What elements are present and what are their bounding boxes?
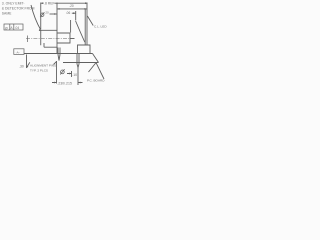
svg-text:.04: .04 — [15, 26, 20, 30]
svg-text:.30: .30 — [19, 64, 24, 68]
svg-text:Ø: Ø — [5, 26, 8, 30]
svg-text:.8 REF: .8 REF — [44, 2, 55, 6]
svg-text:P.C. BOARD: P.C. BOARD — [87, 79, 105, 83]
svg-text:.20: .20 — [45, 11, 50, 15]
svg-text:TYP. 2 PLCS: TYP. 2 PLCS — [30, 68, 48, 72]
svg-text:.10: .10 — [72, 73, 77, 77]
svg-text:.06: .06 — [66, 11, 71, 15]
svg-text:C.L. LED: C.L. LED — [94, 25, 107, 29]
svg-text:.20: .20 — [69, 4, 74, 8]
svg-text:ALIGNMENT PINS: ALIGNMENT PINS — [30, 64, 56, 68]
svg-text:SAME: SAME — [2, 12, 12, 16]
svg-text:.230/.215: .230/.215 — [57, 81, 72, 85]
svg-text:& DETECTOR FROM: & DETECTOR FROM — [2, 7, 35, 11]
svg-text:3. ONLY EMIT-: 3. ONLY EMIT- — [2, 2, 25, 6]
svg-text:-A-: -A- — [16, 50, 20, 54]
